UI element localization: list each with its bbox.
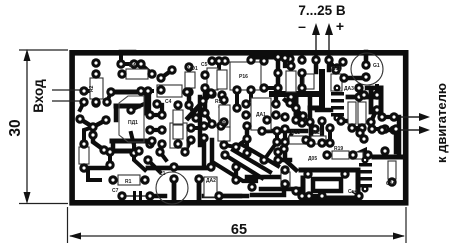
wire g1 base bar [344, 76, 366, 81]
pad [259, 56, 268, 65]
svg-text:Вход: Вход [31, 79, 46, 113]
pad [297, 83, 306, 92]
capacitor C8 [348, 102, 356, 124]
wire top bus drop [276, 57, 281, 68]
wire diode out bar [348, 95, 377, 100]
input wire 2 [52, 100, 84, 102]
wire staircase upper [111, 92, 146, 113]
pad [79, 97, 88, 106]
wire c1 drop [172, 179, 177, 202]
pad [361, 185, 368, 192]
wire c9 down [358, 121, 362, 130]
dimension 65 arrow left [69, 233, 81, 240]
pad [280, 124, 289, 133]
pad [117, 69, 126, 78]
pad [333, 114, 340, 121]
pad [186, 123, 195, 132]
pad [273, 147, 282, 156]
wire bottom bar right [261, 187, 301, 192]
pad [354, 92, 363, 101]
pad [105, 147, 114, 156]
pad [366, 117, 375, 126]
svg-text:R5: R5 [215, 99, 222, 105]
wire bottom left horiz [84, 166, 108, 171]
pad [271, 99, 280, 108]
wire mid pair [245, 126, 250, 139]
pad [246, 85, 255, 94]
pad [359, 90, 368, 99]
transistor VT2 outline [119, 96, 144, 142]
wire to C1 [148, 160, 160, 172]
wire quartz up [84, 127, 93, 144]
dimension 65 extension line left [67, 207, 69, 243]
wire center vert 2 [187, 80, 192, 100]
svg-text:C7: C7 [112, 188, 119, 194]
resistor R20 [351, 152, 363, 159]
pad [173, 139, 182, 148]
resistor R15 [311, 136, 326, 144]
pad [367, 124, 376, 133]
pad [273, 52, 282, 61]
resistor R13 [289, 136, 304, 144]
wire diag bundle 2 [233, 150, 270, 172]
pad [361, 72, 370, 81]
wire transistor diag 2 [93, 120, 106, 127]
wire diag bundle 3 [241, 144, 278, 166]
wire center vertical long [198, 97, 203, 145]
IC DA1 stripe 1 [172, 128, 185, 130]
wire r13 left pair [283, 129, 287, 142]
wire g1 emitter elbow [367, 86, 381, 91]
wire stair2 bar2 [112, 149, 136, 154]
wire output link 1 [382, 115, 394, 119]
wire c4 left link [141, 89, 152, 93]
wire input to transistor [80, 102, 84, 110]
pad [297, 118, 306, 127]
diode bar 5 [359, 163, 372, 167]
pad [129, 59, 138, 68]
pad [298, 111, 307, 120]
wire left bus branch [294, 96, 299, 118]
pad [216, 121, 225, 130]
pad [280, 53, 289, 62]
resistor R9 [218, 127, 230, 141]
wire top edge drop [119, 52, 123, 60]
pad [136, 59, 145, 68]
wire mid right bus [262, 129, 306, 134]
dimension 65 arrow right [393, 233, 405, 240]
pad [311, 55, 320, 64]
pad [180, 147, 189, 156]
dimension 30 arrow down [24, 192, 31, 204]
pad [242, 148, 251, 157]
wire dumbbell bar 1 [150, 113, 162, 117]
wire power branch [308, 94, 313, 122]
input wire 1 [52, 89, 84, 91]
wire g1 emitter down [369, 88, 374, 112]
wire g1 down [375, 86, 379, 95]
wire r9 up [221, 107, 224, 122]
pad [129, 148, 138, 157]
wire p16 pin down 2 [249, 90, 253, 100]
pad [217, 90, 226, 99]
pad [338, 57, 347, 66]
pad [194, 174, 203, 183]
pad [391, 124, 400, 133]
pad [285, 98, 294, 107]
wire staircase lower [116, 104, 138, 109]
wire r6 lead [177, 139, 179, 144]
diode bar 6 [359, 170, 372, 174]
svg-text:G1: G1 [373, 63, 380, 69]
svg-text:–: – [298, 18, 306, 34]
wire da2 drop [197, 179, 202, 202]
wire c5 link [205, 73, 214, 77]
pad [116, 59, 125, 68]
svg-text:C1: C1 [159, 171, 166, 177]
pad [231, 175, 240, 184]
pad [297, 68, 306, 77]
pad [387, 177, 396, 186]
wire g1 collector up [364, 52, 369, 64]
wire to vd1 diag [161, 70, 172, 78]
pad [361, 60, 370, 69]
pad [157, 125, 166, 134]
wire right bottom bus [374, 155, 402, 160]
resistor R7 [286, 71, 296, 92]
svg-text:R11: R11 [332, 66, 341, 72]
pad [305, 117, 314, 126]
pad [200, 83, 209, 92]
svg-text:ДА3: ДА3 [344, 86, 354, 92]
pad [280, 165, 289, 174]
pad [331, 65, 340, 74]
pad [389, 125, 398, 134]
wire elbow down [265, 122, 269, 131]
pad [79, 139, 88, 148]
pad [317, 191, 326, 200]
wire output link 2 [382, 128, 394, 132]
diode bar 3 [331, 106, 344, 110]
board outline [72, 53, 406, 203]
wire input top branch [84, 89, 96, 93]
svg-text:Д05: Д05 [308, 156, 317, 162]
pad [106, 87, 115, 96]
pad [301, 135, 310, 144]
svg-text:ПД1: ПД1 [128, 120, 138, 126]
pad [271, 110, 280, 119]
pad [155, 147, 164, 156]
resistor R1 [118, 175, 140, 185]
pad [152, 99, 161, 108]
pad [214, 56, 223, 65]
pad [207, 56, 216, 65]
wire to diode stack [317, 108, 331, 113]
wire block label link [352, 192, 359, 196]
dimension 30 arrow up [24, 49, 31, 61]
wire rp down [220, 95, 224, 100]
pad [325, 138, 334, 147]
pad [91, 97, 100, 106]
capacitor C5 [207, 68, 218, 90]
pad [372, 90, 381, 99]
wire s-bend diag [285, 100, 303, 116]
pad [303, 169, 312, 178]
pad [272, 126, 281, 135]
pad [126, 105, 135, 114]
wire right drop [394, 129, 399, 152]
pad [317, 116, 326, 125]
svg-text:R4: R4 [129, 63, 136, 69]
pad [143, 155, 152, 164]
pad [273, 68, 282, 77]
pad [143, 86, 152, 95]
wire to c1 top [160, 152, 166, 160]
pad [145, 110, 154, 119]
pad [247, 182, 256, 191]
wire staircase lower riser [114, 106, 119, 120]
pad [357, 123, 366, 132]
wire g1 emitter diag [371, 108, 377, 122]
svg-text:VD1: VD1 [188, 66, 198, 72]
pad [199, 121, 208, 130]
wire power bus vertical [319, 72, 325, 108]
pad [214, 191, 223, 200]
pad [173, 100, 182, 109]
wire top border stub [121, 50, 134, 55]
pad [304, 191, 313, 200]
svg-text:30: 30 [7, 119, 24, 136]
pad [186, 135, 195, 144]
pad [372, 105, 381, 114]
capacitor C4 [157, 85, 182, 97]
wire left mid elbow [93, 129, 104, 150]
pad [280, 137, 289, 146]
wire mid right drop [275, 131, 279, 142]
pad [117, 191, 126, 200]
svg-text:C14: C14 [386, 181, 395, 187]
pad [101, 115, 110, 124]
wire rp top in [217, 61, 221, 70]
dimension 30 line [26, 53, 28, 200]
wire da1 down [202, 140, 207, 166]
pad [156, 73, 165, 82]
pad [134, 146, 143, 155]
pad [262, 115, 271, 124]
pad [317, 138, 326, 147]
wire bottom run [219, 194, 240, 199]
wire plus diag [329, 60, 336, 70]
diode bar 1 [331, 92, 344, 96]
resistor R3 [173, 110, 183, 124]
pad [219, 117, 228, 126]
pad [79, 163, 88, 172]
wire da1 top link [191, 126, 204, 130]
pad [184, 87, 193, 96]
wire top left link [121, 62, 141, 66]
pad [380, 146, 389, 155]
pad [147, 69, 156, 78]
wire top bus [252, 55, 278, 60]
wire p16 out [264, 86, 276, 90]
dimension 30 extension line bottom [19, 203, 68, 205]
pad [182, 87, 191, 96]
IC DA1 [170, 123, 187, 148]
capacitor C9 [358, 102, 366, 124]
wire c9 down diag [358, 130, 364, 139]
wire diode to c8 [341, 119, 348, 123]
pad [200, 70, 209, 79]
pad [184, 62, 193, 71]
wire DD1 left [108, 152, 112, 163]
wire left drop [285, 142, 296, 170]
svg-text:ДА1: ДА1 [256, 112, 266, 118]
wire right of p16 vert [276, 73, 281, 88]
pad [336, 116, 345, 125]
pad [241, 99, 250, 108]
resistor R11 [331, 74, 342, 91]
wire diag bundle 4 [214, 163, 256, 181]
wire t5 vertical [210, 140, 215, 162]
wire bottom center [150, 194, 165, 199]
IC DA1 stripe 3 [172, 142, 185, 144]
pad [147, 136, 156, 145]
pad [88, 122, 97, 131]
pad [242, 121, 251, 130]
resistor R6 [173, 125, 183, 139]
wire supply minus drop [314, 60, 319, 72]
wire dumbbell up [160, 105, 164, 115]
wire r4 top link [141, 64, 152, 74]
wire bottom bus link [302, 122, 310, 123]
pad [279, 144, 288, 153]
pad [291, 186, 300, 195]
capacitor C10 [281, 172, 290, 187]
wire long bottom bar [148, 166, 212, 171]
pad [297, 55, 306, 64]
pad [380, 124, 389, 133]
output arrow 2 [398, 126, 430, 134]
diode bar 4 [331, 113, 344, 117]
wire dd1 right link [131, 104, 144, 110]
pad [285, 54, 294, 63]
svg-text:+: + [336, 18, 344, 34]
wire r7 [287, 94, 291, 97]
wire bottom left elbow [88, 168, 100, 180]
wire input to stair [107, 92, 111, 102]
wire r7 down [291, 97, 296, 108]
pad [359, 134, 368, 143]
diode bar 7 [359, 177, 372, 181]
wire c6 through [300, 75, 305, 86]
pad [291, 115, 300, 124]
pad [169, 162, 178, 171]
wire p16 pin down [235, 90, 239, 106]
pad [273, 155, 282, 164]
svg-text:R19: R19 [334, 146, 343, 152]
dimension 65 extension line right [405, 207, 407, 243]
wire diode2 up [354, 150, 365, 160]
output arrow 1 [398, 113, 430, 121]
supply arrow plus [325, 23, 333, 50]
pad [200, 108, 209, 117]
wire u left pads link [234, 167, 238, 180]
pad [280, 112, 289, 121]
pad [241, 110, 250, 119]
svg-text:к двигателю: к двигателю [434, 83, 449, 163]
wire mid right vert [320, 121, 324, 143]
svg-text:R9: R9 [219, 121, 226, 127]
wire right vertical to output [379, 88, 384, 117]
pad [377, 112, 386, 121]
pad [207, 89, 216, 98]
pad [340, 169, 349, 178]
wire stair2 riser [111, 141, 116, 151]
wire dd1 link [131, 133, 134, 145]
wire power bus horizontal [272, 91, 322, 97]
wire stair2 bar1 [112, 139, 150, 144]
pad [377, 125, 386, 134]
pad [246, 55, 255, 64]
pad [108, 175, 117, 184]
svg-text:65: 65 [231, 222, 247, 238]
wire transistor down [91, 129, 95, 133]
wire bottom right run [309, 194, 322, 198]
pad [322, 150, 331, 159]
pad [286, 61, 295, 70]
wire c4 pad down [147, 93, 151, 112]
pad [232, 85, 241, 94]
diode bar 2 [331, 99, 344, 103]
wire block inner [313, 179, 341, 191]
pad [145, 139, 154, 148]
svg-text:R15: R15 [313, 130, 322, 136]
wire dumbbell bar 2 [150, 128, 162, 132]
wire center vert [197, 88, 205, 117]
svg-text:R1: R1 [125, 179, 132, 185]
pad [231, 162, 240, 171]
wire bottom long run [204, 194, 247, 199]
pad [140, 175, 149, 184]
wire center diag thick [188, 93, 211, 118]
pad [361, 156, 368, 163]
pad [231, 142, 240, 151]
pad [145, 125, 154, 134]
pad [297, 191, 306, 200]
wire supply plus drop [327, 60, 332, 70]
wire mid diag link [236, 139, 247, 147]
wire da1 diag [185, 140, 191, 152]
dimension 65 line [70, 235, 404, 237]
wire center diag [189, 105, 196, 117]
pad [207, 119, 216, 128]
pad [88, 130, 97, 139]
pad [206, 88, 215, 97]
pad [324, 55, 333, 64]
svg-text:7...25 В: 7...25 В [298, 3, 346, 18]
wire da1 pin up [274, 88, 278, 104]
wire r9 link [224, 145, 236, 147]
pad [79, 86, 88, 95]
capacitor C6 [304, 74, 314, 89]
diode VD1 [185, 72, 195, 88]
IC DA1 dip [251, 98, 271, 130]
wire small link [375, 86, 381, 90]
wire diag bundle 1 [225, 155, 262, 178]
pad [354, 83, 363, 92]
pad [363, 150, 372, 159]
svg-text:Сн4: Сн4 [348, 189, 358, 195]
